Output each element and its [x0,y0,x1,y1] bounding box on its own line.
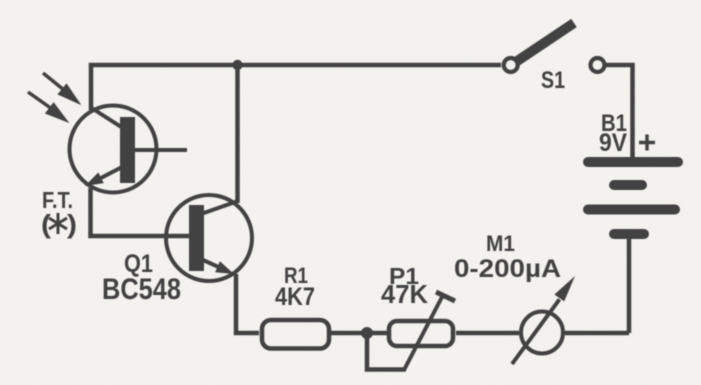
wire M1 to right rail [565,331,629,336]
svg-text:M1: M1 [486,231,515,256]
wire P1 to M1 [456,331,519,336]
light arrows [28,73,80,122]
wire Q1 emitter to R1 [236,274,259,333]
wire wiper loop [367,333,406,370]
svg-text:S1: S1 [541,67,565,94]
node junction bottom [361,327,373,339]
wire F.T. emitter to Q1 base [91,188,190,236]
svg-text:4K7: 4K7 [275,283,315,311]
resistor R1 [262,320,329,349]
plus sign [639,135,655,151]
svg-text:47K: 47K [381,279,428,309]
svg-text:BC548: BC548 [102,273,181,306]
wire top rail [91,65,501,110]
phototransistor F.T. [70,106,188,193]
wire right rail below battery [627,238,632,333]
(*) note [41,209,77,239]
battery B1 [588,162,678,234]
switch S1 [504,23,605,72]
svg-text:9V: 9V [599,129,627,157]
meter M1 [512,276,575,364]
wire R1 to P1 [331,331,387,336]
wire collector drop to Q1 [235,65,240,203]
svg-text:): ) [67,209,77,239]
transistor Q1 [166,195,252,281]
svg-text:0-200µA: 0-200µA [454,255,561,283]
node junction top [232,60,242,70]
wire S1 to battery [604,65,633,158]
svg-text:(: ( [41,209,51,239]
potentiometer P1 [389,292,455,370]
